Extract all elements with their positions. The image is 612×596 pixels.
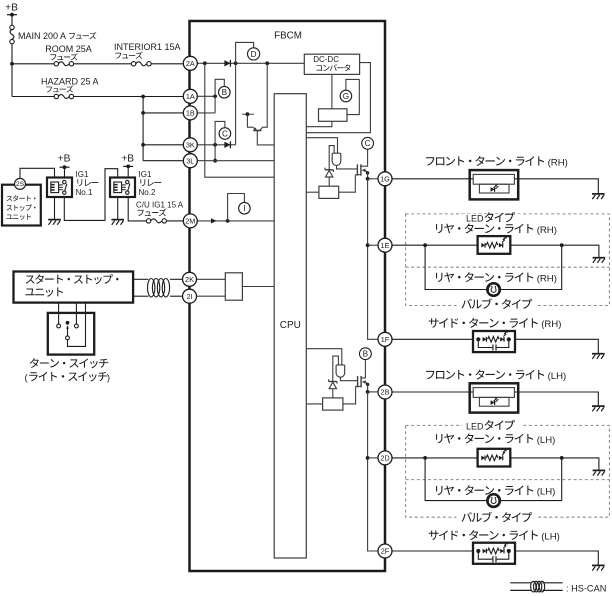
svg-text:1F: 1F [381, 335, 390, 344]
svg-text:HAZARD 25 A: HAZARD 25 A [41, 76, 99, 86]
svg-text:(RH): (RH) [537, 225, 557, 236]
label side turn light RH [429, 318, 439, 328]
capacitor in side light [478, 551, 492, 559]
wire side load to ground [515, 551, 598, 565]
driver 2 hook [333, 356, 339, 381]
sense resistor 2 [323, 398, 343, 410]
svg-text:1A: 1A [186, 92, 195, 101]
svg-text:B: B [363, 350, 369, 359]
wire unit to turn switch right contact [75, 303, 77, 325]
pin 2A [183, 56, 197, 70]
ground front LH [592, 405, 605, 407]
wire 2D to LED load [392, 457, 478, 459]
CAN interface box [225, 273, 242, 300]
ground relay No.2 [111, 219, 124, 221]
flash arrow [503, 543, 507, 548]
wire pin 2M to CPU [197, 220, 274, 222]
transistor Q1 base tap [242, 113, 254, 115]
label bulb type LH [457, 513, 537, 523]
wire 1G to load [392, 178, 473, 180]
wire +B into relay No.2 switch [127, 166, 129, 177]
driver 1 hook [329, 146, 334, 170]
start-stop unit box [14, 272, 134, 303]
svg-text:B: B [222, 88, 228, 97]
ground side RH [592, 353, 605, 355]
FBCM module box [190, 21, 386, 571]
fuse MAIN 200A [10, 25, 14, 29]
legend HS-CAN twisted pair [510, 582, 531, 584]
MOSFET 2 [357, 376, 359, 387]
DC-DC converter box [304, 54, 359, 74]
twisted pair symbol [148, 279, 155, 297]
bulb lamp [487, 283, 500, 296]
MOSFET 2 body arrow [362, 380, 366, 384]
wire bulb branch RH [425, 245, 487, 289]
wire relay No.2 switch to C/U IG1 fuse [128, 197, 146, 221]
driver 1 CPU line [306, 138, 337, 154]
label LED type RH [463, 214, 522, 223]
flash arrow [503, 331, 507, 336]
wire hazard bus vertical [142, 97, 144, 161]
svg-text:No.1: No.1 [76, 188, 93, 197]
turn switch contacts [57, 324, 61, 328]
capacitor in side light [478, 339, 492, 347]
svg-text:(RH): (RH) [537, 274, 557, 285]
node D hook [236, 42, 254, 63]
svg-text:IG1: IG1 [139, 170, 152, 179]
driver 2 output node [367, 384, 369, 392]
node D [248, 48, 260, 60]
wire +B into relay No.1 switch [64, 167, 66, 177]
svg-text:(LH): (LH) [537, 435, 556, 446]
svg-text:C: C [365, 139, 371, 148]
turn switch box [48, 313, 94, 355]
side turn light box [473, 543, 515, 564]
svg-text:(LH): (LH) [541, 531, 560, 542]
wire DC-DC right to CPU [306, 63, 370, 133]
pin 1G [378, 172, 392, 186]
rear turn light LED box [478, 449, 511, 467]
front turn light housing [470, 170, 519, 199]
wire load to ground [514, 179, 598, 194]
wire unit to turn switch left contact [58, 303, 60, 325]
pin 1F [378, 332, 392, 346]
label rear turn light RH (bulb) [436, 273, 442, 282]
svg-text:+B: +B [5, 3, 18, 14]
driver 1 output node [367, 173, 369, 179]
wire DC-DC output to resistor [331, 74, 333, 108]
svg-text:INTERIOR1 15A: INTERIOR1 15A [114, 42, 181, 52]
CPU box [274, 94, 306, 558]
node C [362, 137, 374, 149]
svg-text:2S: 2S [16, 181, 25, 188]
fuse ROOM 25A [54, 62, 58, 66]
flash arrow [502, 237, 506, 242]
MOSFET 1 [356, 164, 358, 175]
wire to pin 2D [368, 457, 378, 459]
fuse INTERIOR1 15A [131, 62, 135, 66]
driver 2 gate wire [340, 377, 357, 381]
wire to pin 1B [143, 112, 183, 114]
svg-text:2M: 2M [185, 217, 195, 226]
wire relay No.1 switch to relay No.2 coil [64, 169, 117, 221]
diode on 2A feed [224, 60, 230, 66]
wire pin 2K to interface [197, 278, 226, 280]
wire pin 3L to CPU [197, 160, 274, 162]
pin 2K [183, 272, 197, 286]
wire LED load to ground [510, 458, 599, 471]
fuse C/U IG1 15A [146, 219, 150, 223]
ground relay No.1 [48, 219, 61, 221]
svg-text:): ) [107, 373, 110, 384]
node B hook [215, 79, 224, 96]
flash arrow [502, 450, 506, 455]
relay K2 IG1 relay No.2 [110, 178, 135, 198]
LED symbol [491, 187, 495, 192]
label front turn light RH [426, 157, 434, 165]
pin 3L [183, 154, 197, 168]
svg-text:2I: 2I [186, 292, 192, 301]
wire LED load to ground [510, 245, 599, 258]
svg-text:+B: +B [121, 153, 134, 164]
wire 1F to side load [392, 338, 473, 340]
wire D node to 3K diode [235, 63, 237, 145]
ground front RH [592, 193, 605, 195]
node I hook [228, 194, 245, 221]
driver 1 gate wire [337, 166, 358, 169]
svg-text:No.2: No.2 [139, 188, 156, 197]
wire pin 1B junction [197, 112, 215, 114]
svg-text:1G: 1G [380, 174, 390, 183]
dashed box LED/bulb type RH [406, 214, 610, 306]
transistor Q1 [247, 114, 253, 127]
wire resistor to CPU 1 [306, 191, 319, 193]
wire to pin 3L [143, 160, 183, 162]
wire side load to ground [515, 339, 598, 353]
ground rear LH [593, 469, 606, 471]
driver 2 CPU line [306, 349, 342, 365]
svg-text:LED: LED [466, 214, 484, 224]
wire relay No.2 coil to ground [117, 197, 119, 220]
resistor DC-DC output [319, 109, 348, 122]
MOSFET 1 body arrow [362, 169, 366, 173]
pin 2F [378, 544, 392, 558]
zener diode 1 [325, 169, 333, 171]
wire to pin 3K [143, 144, 183, 146]
svg-text:D: D [251, 50, 257, 59]
svg-text:2K: 2K [185, 275, 194, 284]
relay K1 IG1 relay No.1 [47, 178, 72, 198]
rear turn light LED box [478, 236, 511, 254]
label turn switch [30, 358, 39, 368]
wire ROOM fuse row [12, 63, 54, 65]
svg-text:2F: 2F [381, 547, 390, 556]
svg-text:2A: 2A [186, 59, 195, 68]
side turn light box [473, 331, 515, 352]
svg-text:C/U IG1 15 A: C/U IG1 15 A [136, 200, 184, 209]
wire resistor to CPU [306, 121, 332, 126]
svg-text:+B: +B [58, 153, 71, 164]
wire 2K twisted pair upper [133, 278, 148, 280]
sense resistor 1 [319, 186, 339, 198]
svg-text:2B: 2B [381, 388, 390, 397]
wire 1E to LED load [392, 244, 478, 246]
svg-text:3K: 3K [186, 140, 195, 149]
node I [239, 202, 251, 214]
wire output rail RH [368, 178, 378, 180]
pin 1A [183, 89, 197, 103]
node C [219, 128, 231, 140]
pin 1E [378, 238, 392, 252]
wire unit to turn switch common [68, 303, 86, 347]
svg-text:MAIN 200 A: MAIN 200 A [18, 31, 66, 41]
svg-text:ROOM 25A: ROOM 25A [45, 44, 92, 54]
front turn light housing [470, 383, 519, 412]
wire pin 2I to interface [197, 295, 226, 297]
wire HAZARD row [12, 96, 54, 98]
label rear turn light LH (bulb) [436, 486, 442, 495]
wire to pin 1E [368, 244, 378, 246]
node B [219, 86, 231, 98]
wire resistor to source 2 [343, 386, 356, 404]
wire 2B to load [392, 391, 473, 393]
wire pin 3K to diode [197, 144, 235, 146]
svg-text:3L: 3L [186, 156, 194, 165]
svg-text:C: C [222, 129, 228, 138]
LED symbol [491, 400, 495, 405]
bulb lamp [487, 494, 500, 507]
svg-text:FBCM: FBCM [274, 31, 302, 42]
driver 2 current source [336, 365, 345, 377]
wire relay No.1 coil to ground [54, 197, 56, 220]
wire 2I twisted pair lower [133, 295, 148, 297]
wire HAZARD fuse to pin 1A [74, 96, 184, 98]
ground rear RH [593, 257, 606, 259]
wire 2A to CPU [205, 63, 274, 177]
start-stop unit box (2S) [2, 185, 41, 226]
wire +B to MAIN fuse [11, 15, 13, 26]
pin 2M [183, 214, 197, 228]
connector 2S start-stop unit [15, 178, 26, 189]
wire resistor to CPU 2 [306, 403, 322, 405]
dashed box LED/bulb type LH [406, 425, 610, 517]
label side turn light LH [429, 530, 439, 540]
wire 2F to side load [392, 550, 473, 552]
svg-text:I: I [243, 204, 245, 213]
ground side LH [592, 564, 605, 566]
pin 1B [183, 106, 197, 120]
wire load to ground [514, 392, 598, 406]
wire 3K to 3L join [214, 145, 216, 161]
wire interface to CPU [242, 286, 274, 288]
svg-text:(LH): (LH) [537, 487, 556, 498]
node G [340, 90, 352, 102]
diode on 3K feed [224, 142, 230, 148]
node B [360, 348, 372, 360]
wire pin 2A to DC-DC [197, 62, 304, 64]
svg-text:G: G [343, 92, 349, 101]
wire Q1 to CPU [257, 131, 274, 145]
label LED type LH [463, 422, 522, 431]
label rear turn light RH (LED) [436, 224, 442, 233]
fuse HAZARD 25A [54, 94, 58, 98]
svg-text:LED: LED [466, 421, 484, 431]
wire INTERIOR fuse to pin 2A [151, 63, 183, 65]
wire pin 1A junction [197, 95, 215, 97]
svg-text:DC-DC: DC-DC [313, 55, 339, 64]
pin 2I [183, 289, 197, 303]
pin 2D [378, 451, 392, 465]
label front turn light LH [426, 371, 434, 379]
node C hook [215, 121, 225, 144]
driver 1 current source [332, 153, 341, 165]
pin 3K [183, 138, 197, 152]
arrow on 2M wire [211, 218, 217, 223]
node G hook [346, 79, 359, 114]
wire resistor to source 1 [339, 175, 356, 193]
svg-text:(LH): (LH) [548, 371, 567, 382]
wire bulb branch LH [425, 458, 487, 501]
wire fuse to pin 2M [166, 220, 183, 222]
label bulb type RH [457, 300, 537, 310]
svg-text:: HS-CAN: : HS-CAN [566, 583, 606, 593]
svg-text:IG1: IG1 [76, 170, 89, 179]
svg-text:1B: 1B [186, 109, 195, 118]
svg-text:(RH): (RH) [541, 319, 561, 330]
wire output rail LH [368, 391, 378, 393]
wire MAIN fuse to ROOM/HAZARD junction [11, 44, 13, 97]
zener diode 2 [329, 381, 337, 383]
svg-text:(RH): (RH) [548, 157, 568, 168]
svg-text:CPU: CPU [280, 320, 301, 331]
wire start-stop unit 2S to relay No.1 coil [20, 168, 55, 178]
svg-text:2D: 2D [380, 454, 389, 463]
svg-text:1E: 1E [381, 241, 390, 250]
pin 2B [378, 385, 392, 399]
label rear turn light LH (LED) [436, 434, 442, 443]
